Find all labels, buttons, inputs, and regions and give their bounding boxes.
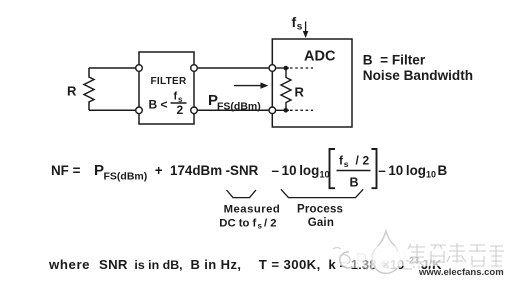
svg-text:Measured: Measured (224, 204, 281, 216)
dashed wire inside ADC bottom (290, 109, 313, 111)
svg-text:is in dB,: is in dB, (134, 258, 182, 272)
svg-text:2: 2 (363, 154, 370, 168)
wire: ADC terminal to internal node bottom (276, 109, 289, 111)
svg-text:B in Hz,: B in Hz, (191, 257, 242, 272)
watermark: CJK glyph 3 (447, 243, 466, 263)
fs clock arrow into ADC (305, 22, 307, 33)
svg-text:– 10 log: – 10 log (272, 163, 320, 178)
svg-text:DC to f: DC to f (219, 217, 256, 229)
svg-text:f: f (292, 14, 297, 30)
svg-text:NF: NF (51, 163, 69, 178)
equation: right bracket (372, 149, 377, 188)
svg-text:/ 2: / 2 (264, 217, 277, 229)
svg-text:10: 10 (426, 169, 436, 179)
signal direction arrow (234, 85, 262, 87)
node: FILTER input terminal top (136, 65, 143, 72)
watermark: outline letters RFL (358, 252, 433, 270)
svg-text:+: + (155, 163, 163, 178)
watermark: CJK glyph 4 (469, 245, 486, 266)
svg-text:174dBm: 174dBm (170, 163, 222, 178)
svg-text:– 10 log: – 10 log (378, 163, 426, 178)
svg-text:FS(dBm): FS(dBm) (217, 101, 261, 113)
svg-text:10: 10 (320, 169, 330, 179)
svg-text:2: 2 (177, 103, 184, 117)
svg-text:Noise Bandwidth: Noise Bandwidth (363, 68, 473, 83)
svg-text:f: f (174, 91, 178, 103)
svg-text:T = 300K,: T = 300K, (259, 257, 321, 272)
brace under SNR term (measured) (227, 190, 257, 198)
wire: FILTER output to ADC input top (197, 67, 272, 69)
svg-text:FILTER: FILTER (151, 76, 188, 87)
svg-text:FS(dBm): FS(dBm) (104, 171, 148, 183)
wire: resistor top to FILTER input (89, 67, 139, 69)
svg-text:SNR: SNR (99, 257, 128, 272)
junction dot top (284, 66, 289, 71)
equation: left bracket (330, 149, 336, 188)
svg-text:Process: Process (297, 204, 343, 216)
svg-text:=: = (73, 163, 81, 178)
svg-text:where: where (48, 257, 90, 272)
watermark: CJK glyph 5 (489, 246, 504, 266)
svg-text:www.elecfans.com: www.elecfans.com (418, 267, 504, 278)
svg-text:-SNR: -SNR (226, 163, 259, 178)
ADC block (272, 39, 352, 127)
svg-text:s: s (297, 22, 303, 33)
svg-text:R: R (295, 85, 305, 100)
brace under process gain term (281, 189, 363, 197)
svg-text:B: B (350, 175, 359, 189)
svg-text:s: s (258, 222, 263, 231)
svg-text:ADC: ADC (304, 49, 336, 65)
node: ADC input terminal top (269, 65, 276, 72)
svg-text:Gain: Gain (308, 217, 334, 229)
junction dot bottom (284, 108, 289, 113)
svg-text:R: R (67, 84, 77, 99)
watermark: teardrop logo (372, 231, 400, 273)
svg-text:B = Filter: B = Filter (363, 53, 426, 68)
resistor R (source termination, left) (84, 68, 94, 110)
node: FILTER input terminal bottom (136, 107, 143, 114)
FILTER block (139, 52, 194, 124)
svg-text:B <: B < (149, 98, 168, 112)
watermark: CJK glyph 1 (408, 243, 504, 266)
svg-text:B: B (438, 163, 448, 178)
wire: ADC terminal to internal node top (276, 67, 289, 69)
watermark: frosted overlay (398, 240, 508, 266)
watermark: swirl logo (333, 231, 508, 278)
resistor R (ADC internal input resistance) (281, 68, 291, 110)
svg-text:s: s (344, 159, 349, 169)
node: ADC input terminal bottom (269, 107, 276, 114)
dashed wire inside ADC top (290, 67, 313, 69)
node: FILTER output terminal top (191, 65, 198, 72)
svg-text:P: P (94, 162, 104, 179)
wire: FILTER output to ADC input bottom (197, 109, 272, 111)
node: FILTER output terminal bottom (191, 107, 198, 114)
watermark: CJK glyph 2 (430, 245, 446, 263)
wire: resistor bottom to FILTER input low (89, 109, 139, 111)
equation: fraction bar (337, 170, 371, 172)
